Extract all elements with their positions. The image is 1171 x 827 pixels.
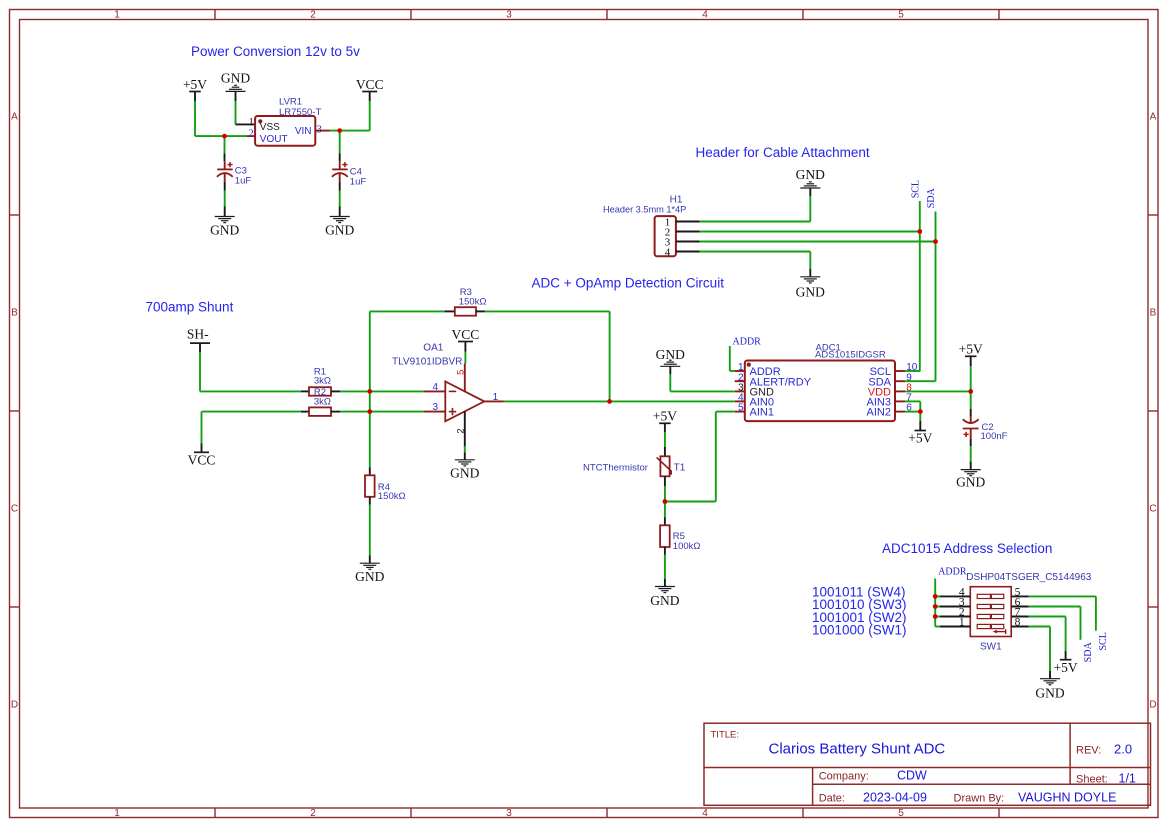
svg-text:GND: GND [956,474,985,489]
svg-text:+5V: +5V [183,77,207,92]
svg-text:3: 3 [506,10,512,21]
svg-text:GND: GND [796,285,825,300]
svg-text:1: 1 [493,392,499,403]
svg-text:NTCThermistor: NTCThermistor [583,462,648,473]
svg-text:+5V: +5V [653,409,677,424]
svg-text:C: C [11,504,18,515]
svg-text:DSHP04TSGER_C5144963: DSHP04TSGER_C5144963 [966,572,1092,583]
svg-text:A: A [11,112,18,123]
svg-text:REV:: REV: [1076,744,1101,756]
svg-text:5: 5 [738,403,744,414]
svg-text:2: 2 [310,808,316,819]
svg-text:TITLE:: TITLE: [711,730,740,741]
svg-text:Power Conversion 12v to 5v: Power Conversion 12v to 5v [191,44,360,59]
svg-text:LVR1: LVR1 [279,97,302,108]
svg-text:VCC: VCC [356,77,384,92]
svg-text:ADDR: ADDR [733,337,762,348]
svg-text:ADS1015IDGSR: ADS1015IDGSR [815,349,886,360]
svg-text:LR7550-T: LR7550-T [279,107,321,118]
svg-text:GND: GND [450,466,479,481]
svg-text:GND: GND [656,347,685,362]
svg-text:5: 5 [898,808,904,819]
svg-text:150kΩ: 150kΩ [378,491,406,502]
svg-text:SCL: SCL [1098,632,1109,650]
svg-text:2: 2 [248,129,253,140]
svg-text:CDW: CDW [897,769,927,783]
svg-text:B: B [1150,308,1157,319]
svg-text:4: 4 [665,246,671,258]
svg-text:4: 4 [432,382,438,393]
svg-text:1: 1 [114,10,120,21]
svg-text:3: 3 [432,402,438,413]
svg-text:1001000 (SW1): 1001000 (SW1) [812,623,907,638]
svg-text:C: C [1149,504,1156,515]
svg-text:700amp Shunt: 700amp Shunt [146,300,234,315]
svg-text:2.0: 2.0 [1114,741,1132,756]
svg-text:AIN2: AIN2 [867,407,891,419]
svg-text:ADC + OpAmp Detection Circuit: ADC + OpAmp Detection Circuit [532,276,725,291]
svg-text:3: 3 [506,808,512,819]
svg-text:Sheet:: Sheet: [1076,773,1108,785]
svg-text:T1: T1 [674,462,686,473]
svg-text:ADC1015 Address Selection: ADC1015 Address Selection [882,541,1052,556]
svg-text:GND: GND [1035,686,1064,701]
svg-text:5: 5 [898,10,904,21]
svg-text:B: B [11,308,18,319]
svg-text:1uF: 1uF [350,177,367,188]
svg-text:5: 5 [456,370,467,375]
svg-text:Header 3.5mm 1*4P: Header 3.5mm 1*4P [603,205,686,215]
svg-text:4: 4 [702,10,708,21]
svg-text:VOUT: VOUT [260,134,288,145]
svg-text:2023-04-09: 2023-04-09 [863,791,927,805]
svg-text:TLV9101IDBVR: TLV9101IDBVR [392,357,462,368]
svg-text:SCL: SCL [910,180,921,198]
svg-text:VCC: VCC [452,327,480,342]
svg-text:100nF: 100nF [981,431,1008,442]
svg-text:D: D [1149,700,1156,711]
svg-text:GND: GND [210,223,239,238]
svg-text:4: 4 [702,808,708,819]
svg-text:3kΩ: 3kΩ [314,375,331,386]
svg-text:1: 1 [248,117,253,128]
svg-text:+5V: +5V [1054,660,1078,675]
svg-text:1: 1 [114,808,120,819]
svg-text:SDA: SDA [1083,642,1094,663]
svg-text:GND: GND [325,223,354,238]
svg-text:Clarios Battery Shunt ADC: Clarios Battery Shunt ADC [769,740,946,757]
svg-text:150kΩ: 150kΩ [459,297,487,308]
svg-text:Date:: Date: [819,793,845,805]
svg-text:GND: GND [796,167,825,182]
svg-text:GND: GND [221,71,250,86]
svg-text:A: A [1150,112,1157,123]
svg-text:SW1: SW1 [980,641,1002,652]
svg-text:1/1: 1/1 [1119,771,1136,785]
svg-text:VAUGHN DOYLE: VAUGHN DOYLE [1018,791,1116,805]
svg-text:D: D [11,700,18,711]
svg-text:VCC: VCC [188,452,216,467]
svg-text:VSS: VSS [260,122,280,133]
svg-text:2: 2 [310,10,316,21]
svg-text:+5V: +5V [959,341,983,356]
svg-text:100kΩ: 100kΩ [673,541,701,552]
svg-text:+5V: +5V [908,431,932,446]
svg-text:Drawn By:: Drawn By: [954,793,1005,805]
svg-text:OA1: OA1 [423,343,443,354]
svg-text:VIN: VIN [295,126,312,137]
svg-text:GND: GND [355,569,384,584]
svg-text:SH-: SH- [187,327,209,342]
svg-text:Header for Cable Attachment: Header for Cable Attachment [696,145,870,160]
svg-text:1uF: 1uF [235,176,252,187]
svg-text:AIN1: AIN1 [750,407,774,419]
svg-text:3kΩ: 3kΩ [314,396,331,407]
svg-text:SDA: SDA [926,188,937,209]
svg-text:8: 8 [1015,617,1021,629]
svg-text:Company:: Company: [819,771,869,783]
svg-text:ADDR: ADDR [938,567,967,578]
svg-text:2: 2 [456,428,467,433]
svg-text:1: 1 [959,617,965,629]
svg-text:GND: GND [650,593,679,608]
